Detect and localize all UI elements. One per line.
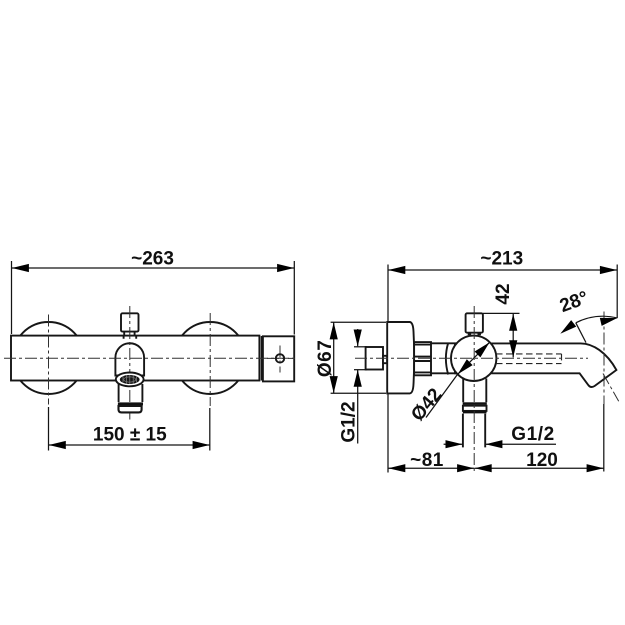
side horizontal centerline <box>355 357 588 359</box>
dimension ~213 <box>388 249 617 319</box>
body end separation line <box>261 336 263 381</box>
spout <box>455 343 616 387</box>
end cap crosshair <box>267 346 293 373</box>
handle (front) <box>121 313 139 331</box>
svg-text:G1/2: G1/2 <box>511 424 555 445</box>
outlet axis vertical dash-dot <box>603 312 605 405</box>
aerator black ring band <box>118 402 143 405</box>
svg-text:G1/2: G1/2 <box>339 401 360 442</box>
hidden water channel (dashed) <box>496 354 562 364</box>
dimension ~263 <box>12 249 295 335</box>
left mounting flange circle <box>13 322 85 394</box>
centerline circle 2 <box>209 313 211 406</box>
centerline spout <box>129 306 131 420</box>
end cap <box>263 336 294 381</box>
dimension 150 +/- 15 <box>49 407 210 451</box>
svg-text:150 ± 15: 150 ± 15 <box>93 425 167 446</box>
wall flange <box>387 322 414 393</box>
outlet ring <box>463 406 487 411</box>
G1/2 inlet nipple <box>366 347 383 370</box>
svg-text:120: 120 <box>526 450 558 471</box>
svg-text:Ø67: Ø67 <box>315 340 336 377</box>
body notch ticks <box>124 336 137 339</box>
svg-text:~81: ~81 <box>410 450 444 471</box>
svg-text:~213: ~213 <box>480 249 523 270</box>
transition arc <box>446 343 448 374</box>
outlet ring thick bottom <box>463 411 487 413</box>
aerator bottom cup <box>119 406 142 413</box>
nipple step <box>383 356 387 363</box>
svg-text:28°: 28° <box>557 288 591 318</box>
handle (side) <box>466 313 483 332</box>
main body circle Ø42 <box>451 336 496 381</box>
dimension 28 degrees <box>557 288 618 343</box>
dimension G1/2 bottom <box>444 424 556 448</box>
hex nut <box>414 342 431 375</box>
hex nut facet lines <box>414 344 431 346</box>
spout dome (front) <box>115 343 144 375</box>
handle stem (side) <box>469 333 480 336</box>
dimension Ø67 <box>315 322 386 393</box>
bottom outlet cylinder <box>463 379 486 403</box>
dimension 42 <box>483 283 520 357</box>
side vertical centerline <box>473 306 475 472</box>
faucet body bar <box>11 336 259 381</box>
dimension 120 <box>475 404 604 472</box>
handle stem <box>124 332 134 336</box>
end cap screw circle <box>276 354 284 362</box>
dimension ~81 <box>388 450 474 472</box>
lower outlet tube G1/2 <box>463 414 485 448</box>
right mounting flange circle <box>174 322 246 394</box>
dimension Ø42 leader <box>407 340 492 426</box>
wall plane extension line <box>387 265 389 473</box>
front horizontal centerline <box>4 357 297 359</box>
aerator outer ellipse <box>116 373 144 387</box>
dimension G1/2 left <box>339 329 367 444</box>
svg-text:42: 42 <box>493 283 514 304</box>
connecting tube edges <box>431 343 458 373</box>
outlet axis slanted dash-dot <box>603 374 619 402</box>
outlet black band <box>463 402 487 405</box>
centerline circle 1 <box>48 315 50 405</box>
svg-text:~263: ~263 <box>131 249 174 270</box>
aerator cylinder sides <box>119 384 143 402</box>
aerator mesh <box>120 375 140 384</box>
